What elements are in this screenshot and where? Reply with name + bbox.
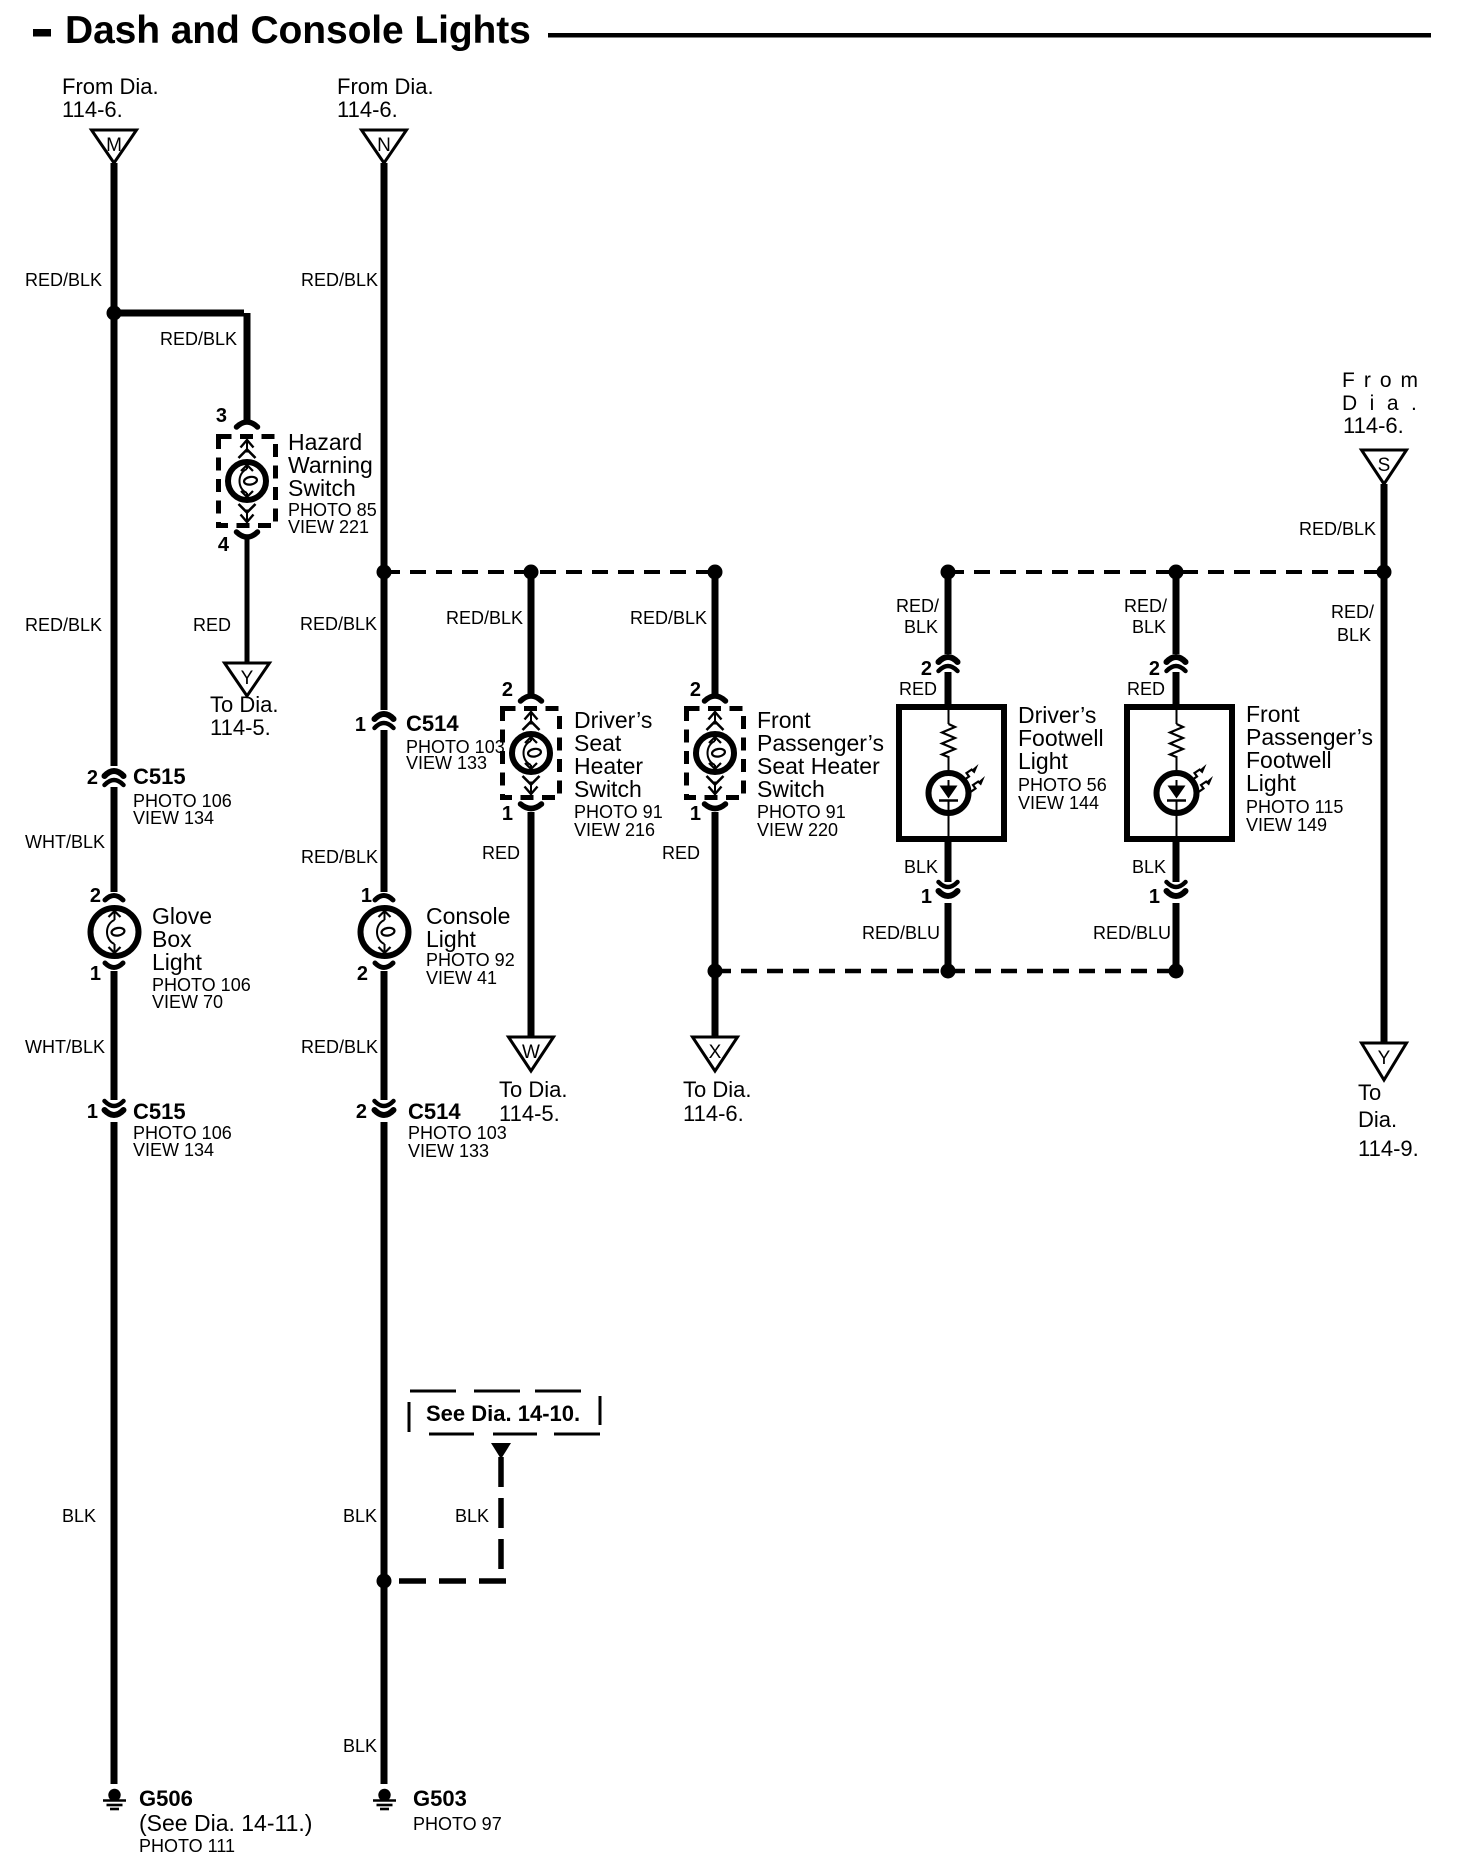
svg-text:114-5.: 114-5.: [499, 1101, 560, 1126]
svg-text:VIEW 134: VIEW 134: [133, 1140, 214, 1160]
svg-text:Switch: Switch: [288, 475, 356, 501]
svg-text:PHOTO 92: PHOTO 92: [426, 950, 515, 970]
svg-text:RED/BLK: RED/BLK: [630, 608, 707, 628]
svg-text:RED/: RED/: [896, 596, 939, 616]
svg-text:RED/BLK: RED/BLK: [25, 270, 102, 290]
wire: column S RED/BLK vertical from triangle S to triangle Y: [1381, 484, 1388, 1045]
svg-text:3: 3: [216, 405, 227, 427]
svg-text:To Dia.: To Dia.: [210, 692, 278, 717]
wire: RED output of driver's seat heater switch to triangle W: [528, 812, 535, 1039]
svg-text:RED/BLU: RED/BLU: [1093, 923, 1171, 943]
svg-text:VIEW 216: VIEW 216: [574, 820, 655, 840]
svg-text:PHOTO 97: PHOTO 97: [413, 1814, 502, 1834]
wire: RED/BLK drop to front passenger's seat heater switch: [712, 572, 719, 695]
svg-text:VIEW 144: VIEW 144: [1018, 793, 1099, 813]
wire: RED output of front passenger's seat heater switch down to triangle X: [712, 812, 719, 1039]
svg-text:1: 1: [690, 803, 701, 825]
svg-text:RED/BLK: RED/BLK: [301, 847, 378, 867]
junction node on RED/BLU return bus at column C4: [708, 964, 723, 979]
front passenger's seat heater switch dashed box with illumination lamp: [687, 709, 744, 798]
wire: RED into front passenger's footwell light: [1173, 672, 1180, 704]
connector triangle Y to Dia 114-5: [225, 663, 270, 696]
connector triangle S: [1362, 450, 1407, 484]
svg-text:Light: Light: [1018, 748, 1068, 774]
svg-text:2: 2: [356, 1101, 367, 1123]
svg-text:1: 1: [921, 886, 932, 908]
svg-text:RED/BLK: RED/BLK: [301, 1037, 378, 1057]
connector C514 pin 1 (upper): [375, 714, 394, 719]
svg-text:BLK: BLK: [455, 1506, 489, 1526]
svg-text:BLK: BLK: [904, 617, 938, 637]
svg-text:PHOTO 91: PHOTO 91: [757, 802, 846, 822]
console light lamp: [361, 908, 409, 956]
svg-text:VIEW 221: VIEW 221: [288, 517, 369, 537]
svg-text:WHT/BLK: WHT/BLK: [25, 832, 105, 852]
svg-text:RED: RED: [899, 679, 937, 699]
wire: column N RED/BLK from console light to C514: [381, 971, 388, 1100]
svg-text:M: M: [106, 135, 122, 156]
svg-text:From Dia.: From Dia.: [337, 74, 434, 99]
svg-text:2: 2: [90, 885, 101, 907]
svg-text:1: 1: [361, 885, 372, 907]
svg-text:RED/BLK: RED/BLK: [1299, 519, 1376, 539]
svg-text:BLK: BLK: [1132, 857, 1166, 877]
wire: dashed illumination bus from driver's footwell light to node S: [948, 570, 1384, 574]
driver's seat heater switch dashed box with illumination lamp: [503, 709, 560, 798]
svg-text:114-6.: 114-6.: [337, 97, 398, 122]
svg-text:114-9.: 114-9.: [1358, 1136, 1419, 1161]
arrowhead from See Dia. box to dashed BLK branch: [491, 1443, 511, 1459]
svg-text:RED/BLU: RED/BLU: [862, 923, 940, 943]
wire: column N vertical RED/BLK from triangle N to connector C514: [381, 163, 388, 710]
wire: RED/BLK drop to front passenger's footwell light connector: [1173, 572, 1180, 654]
wire: dashed RED/BLU return bus linking footwell lights to triangle X branch: [715, 969, 1176, 974]
svg-text:X: X: [709, 1042, 722, 1063]
junction node column S at lighting bus: [1377, 565, 1392, 580]
svg-text:To: To: [1358, 1080, 1381, 1105]
svg-text:RED: RED: [662, 843, 700, 863]
svg-text:1: 1: [502, 803, 513, 825]
wire: RED/BLK drop to driver's seat heater switch: [528, 572, 535, 695]
junction node return bus at front passenger's footwell light: [1169, 964, 1184, 979]
svg-text:RED: RED: [1127, 679, 1165, 699]
wire: dashed BLK branch to See Dia. 14-10.: [498, 1457, 504, 1581]
svg-text:RED/BLK: RED/BLK: [301, 270, 378, 290]
junction node column N at lighting bus: [377, 565, 392, 580]
pin 1 terminal chevron + label (front passenger's seat heater switch): [705, 804, 726, 809]
connector triangle X to Dia 114-6: [693, 1037, 738, 1071]
svg-text:4: 4: [218, 534, 230, 556]
svg-text:1: 1: [87, 1101, 98, 1123]
wire: column M WHT/BLK from C515 to glove box light: [111, 787, 118, 892]
connector triangle W to Dia 114-5: [509, 1037, 554, 1071]
svg-text:114-6.: 114-6.: [62, 97, 123, 122]
svg-text:Y: Y: [1378, 1048, 1391, 1069]
svg-text:1: 1: [1149, 886, 1160, 908]
svg-text:From: From: [1342, 369, 1427, 392]
svg-text:2: 2: [690, 679, 701, 701]
svg-text:C515: C515: [133, 1099, 186, 1124]
svg-text:RED/BLK: RED/BLK: [160, 329, 237, 349]
svg-text:C514: C514: [406, 711, 459, 736]
junction node bus to driver's footwell light: [941, 565, 956, 580]
svg-text:RED: RED: [482, 843, 520, 863]
driver's footwell light box with resistor and LED: [899, 707, 1004, 839]
wire: BLK out of driver's footwell light: [945, 842, 952, 882]
connector C514 pin 2 (lower): [375, 1101, 394, 1106]
wire: column N RED/BLK from C514 to console light: [381, 730, 388, 892]
svg-text:(See Dia. 14-11.): (See Dia. 14-11.): [139, 1810, 312, 1836]
connector C515 pin 1 (lower): [105, 1101, 124, 1106]
hazard warning switch S1 dashed box with illumination lamp: [219, 437, 276, 526]
wire: column M BLK from C515 to ground G506: [111, 1122, 118, 1784]
svg-text:See Dia. 14-10.: See Dia. 14-10.: [426, 1401, 580, 1426]
wire: column M vertical RED/BLK from triangle M to connector C515: [111, 163, 118, 766]
svg-text:1: 1: [90, 963, 101, 985]
svg-text:G506: G506: [139, 1786, 193, 1811]
connector C515 pin 2 (upper): [105, 771, 124, 776]
svg-text:VIEW 149: VIEW 149: [1246, 815, 1327, 835]
svg-text:PHOTO 111: PHOTO 111: [139, 1836, 235, 1856]
svg-text:BLK: BLK: [1337, 625, 1371, 645]
svg-text:Light: Light: [1246, 770, 1296, 796]
ground G506: [108, 1789, 120, 1801]
svg-text:To Dia.: To Dia.: [499, 1077, 567, 1102]
junction node bus to driver's seat heater switch: [524, 565, 539, 580]
pin 1 terminal chevron + label (driver's seat heater switch): [521, 804, 542, 809]
svg-text:1: 1: [355, 714, 366, 736]
svg-text:2: 2: [921, 658, 932, 680]
svg-text:PHOTO 91: PHOTO 91: [574, 802, 663, 822]
wire: RED into driver's footwell light: [945, 672, 952, 704]
svg-text:Light: Light: [426, 926, 476, 952]
svg-text:Switch: Switch: [757, 776, 825, 802]
svg-text:RED/BLK: RED/BLK: [300, 614, 377, 634]
svg-text:VIEW 220: VIEW 220: [757, 820, 838, 840]
wire: RED/BLU down to return bus: [1173, 903, 1180, 971]
svg-text:RED/BLK: RED/BLK: [25, 615, 102, 635]
connector triangle Y to Dia 114-9: [1362, 1043, 1407, 1080]
svg-text:2: 2: [87, 767, 98, 789]
junction node bus to front passenger's seat heater switch: [708, 565, 723, 580]
svg-text:RED/: RED/: [1331, 602, 1374, 622]
wire: column M WHT/BLK from glove box light to C515: [111, 971, 118, 1100]
glove box light lamp: [91, 908, 139, 956]
wire: BLK out of front passenger's footwell light: [1173, 842, 1180, 882]
svg-text:BLK: BLK: [904, 857, 938, 877]
svg-text:114-6.: 114-6.: [683, 1101, 744, 1126]
svg-text:PHOTO 56: PHOTO 56: [1018, 775, 1107, 795]
junction node on column M to hazard branch: [107, 306, 122, 321]
svg-text:Dash and Console Lights: Dash and Console Lights: [65, 9, 531, 52]
svg-text:N: N: [377, 135, 391, 156]
pin 4 terminal chevron: [237, 532, 258, 537]
wire: RED/BLU down to return bus: [945, 903, 952, 971]
svg-text:To Dia.: To Dia.: [683, 1077, 751, 1102]
svg-text:VIEW 134: VIEW 134: [133, 808, 214, 828]
svg-text:RED/BLK: RED/BLK: [446, 608, 523, 628]
svg-text:BLK: BLK: [62, 1506, 96, 1526]
ground G503: [378, 1789, 390, 1801]
junction node return bus at driver's footwell light: [941, 964, 956, 979]
See Dia. 14-10. dashed reference box: [409, 1391, 600, 1434]
svg-text:From Dia.: From Dia.: [62, 74, 159, 99]
wire: RED/BLK drop to driver's footwell light connector: [945, 572, 952, 654]
svg-text:S: S: [1378, 455, 1391, 476]
svg-text:114-6.: 114-6.: [1343, 413, 1404, 438]
svg-text:WHT/BLK: WHT/BLK: [25, 1037, 105, 1057]
svg-text:VIEW 133: VIEW 133: [408, 1141, 489, 1161]
svg-text:VIEW 70: VIEW 70: [152, 992, 223, 1012]
svg-text:BLK: BLK: [343, 1736, 377, 1756]
wire: branch to hazard warning switch: [114, 310, 244, 317]
svg-text:2: 2: [357, 963, 368, 985]
junction node column N to dashed branch: [377, 1574, 392, 1589]
connector triangle N: [362, 130, 407, 163]
title: Dash and Console Lights: [33, 29, 51, 37]
junction node bus to front passenger's footwell light: [1169, 565, 1184, 580]
svg-text:2: 2: [1149, 658, 1160, 680]
svg-text:BLK: BLK: [343, 1506, 377, 1526]
glove box light pin 1 label + chevron: [105, 963, 123, 968]
pin 3 terminal chevron: [237, 422, 258, 427]
svg-text:G503: G503: [413, 1786, 467, 1811]
svg-text:VIEW 41: VIEW 41: [426, 968, 497, 988]
svg-text:C515: C515: [133, 764, 186, 789]
svg-text:Y: Y: [241, 668, 254, 689]
wire: column N BLK from C514 to ground G503: [381, 1122, 388, 1784]
svg-text:BLK: BLK: [1132, 617, 1166, 637]
svg-text:2: 2: [502, 679, 513, 701]
connector triangle M: [92, 130, 137, 163]
svg-text:VIEW 133: VIEW 133: [406, 753, 487, 773]
wire: hazard switch pin 4 RED down to triangle Y: [245, 538, 250, 665]
svg-text:PHOTO 103: PHOTO 103: [408, 1123, 507, 1143]
svg-text:Light: Light: [152, 949, 202, 975]
svg-text:C514: C514: [408, 1099, 461, 1124]
svg-text:W: W: [522, 1042, 540, 1063]
front passenger's footwell light box with resistor and LED: [1127, 707, 1232, 839]
svg-text:RED: RED: [193, 615, 231, 635]
svg-text:Dia.: Dia.: [1358, 1107, 1397, 1132]
svg-text:PHOTO 115: PHOTO 115: [1246, 797, 1343, 817]
svg-text:114-5.: 114-5.: [210, 715, 271, 740]
svg-text:Switch: Switch: [574, 776, 642, 802]
svg-text:Dia.: Dia.: [1342, 392, 1429, 415]
console light pin 2 label + chevron: [375, 963, 393, 968]
svg-text:RED/: RED/: [1124, 596, 1167, 616]
wire: dashed illumination bus from column N to front passenger's seat heater switch: [384, 570, 715, 574]
